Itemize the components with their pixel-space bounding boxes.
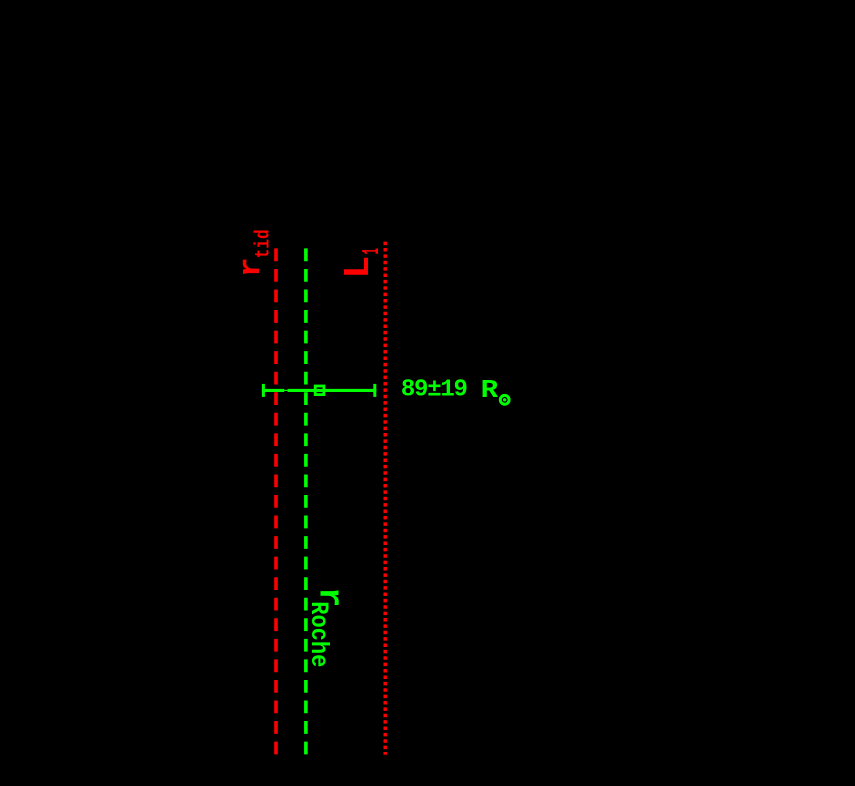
measurement error bar horizontal line (green) xyxy=(262,389,376,392)
svg-text:89±19: 89±19 xyxy=(401,377,467,404)
svg-text:r: r xyxy=(234,257,269,277)
tidal radius line r_tid (red dashed vertical) xyxy=(274,248,278,754)
L1 Lagrange point line (red dotted vertical) xyxy=(384,242,387,755)
solar symbol center dot xyxy=(503,398,506,401)
svg-text:R: R xyxy=(481,375,499,405)
Roche radius line (green dashed vertical) xyxy=(304,248,308,754)
solar symbol ring xyxy=(500,395,509,404)
error bar left cap xyxy=(262,384,265,397)
svg-text:Roche: Roche xyxy=(304,601,333,667)
central square marker (open green square) xyxy=(315,386,324,395)
notch lower part xyxy=(284,391,287,392)
svg-text:tid: tid xyxy=(252,229,275,258)
error bar right cap xyxy=(373,384,376,397)
notch where black curve crosses error bar xyxy=(284,389,287,390)
svg-text:1: 1 xyxy=(359,248,386,255)
svg-text:L: L xyxy=(338,256,379,279)
